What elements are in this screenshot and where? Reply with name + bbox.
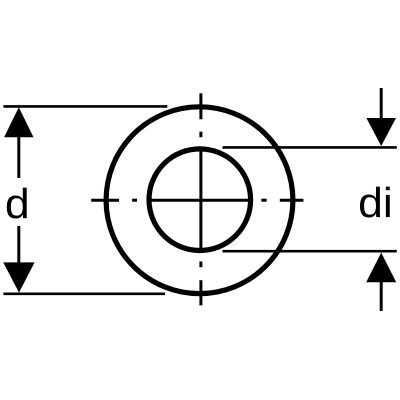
d dimension arrow shaft lower <box>17 226 20 263</box>
label d <box>7 188 27 219</box>
d dimension arrow up <box>4 107 33 137</box>
di dimension extension line, bottom of inner circle <box>223 250 397 253</box>
horizontal centerline (dash-dot) <box>91 199 303 202</box>
d dimension arrow shaft upper <box>17 137 20 178</box>
di dimension arrow down <box>366 118 396 146</box>
inner circle (inside diameter di) <box>149 149 251 251</box>
label di <box>360 187 380 218</box>
dimension extension line, top of outer circle <box>3 105 167 108</box>
vertical centerline (dash-dot) <box>199 93 202 305</box>
d dimension arrow down <box>3 262 34 292</box>
di dimension arrow shaft upper <box>380 88 383 118</box>
di dimension arrow shaft lower <box>380 282 383 311</box>
outer circle (outside diameter d) <box>106 107 293 294</box>
di dimension arrow up <box>366 253 396 283</box>
dimension extension line, bottom of outer circle <box>3 292 165 295</box>
di dimension extension line, top of inner circle <box>223 146 397 149</box>
